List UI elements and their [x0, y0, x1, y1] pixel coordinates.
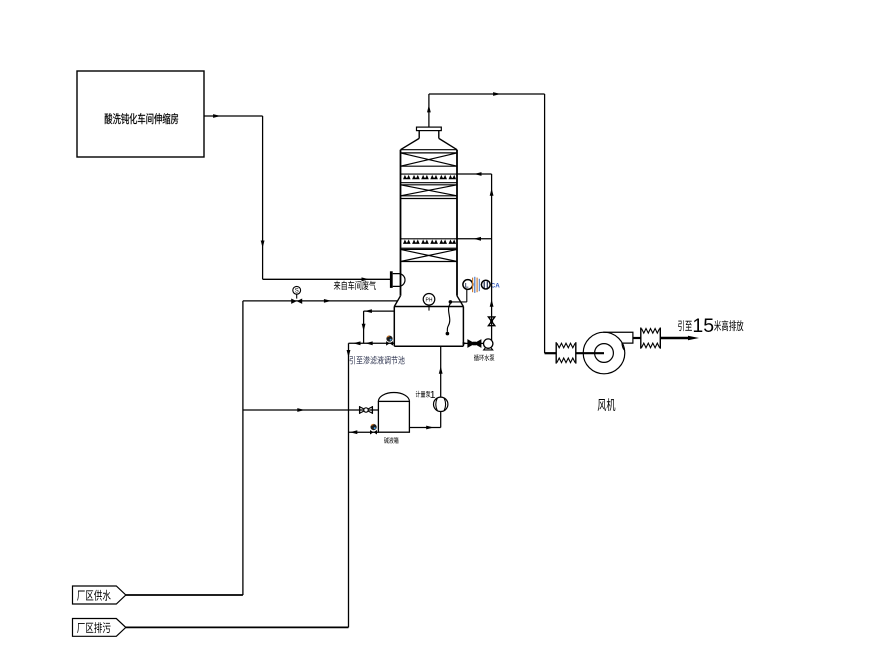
label 计量泵1 — [416, 389, 436, 401]
arrow riser up 2 — [490, 299, 494, 307]
label 来自车间废气 — [334, 281, 376, 290]
wire tower outlet stack — [427, 94, 431, 127]
tower spray header 2 — [401, 239, 458, 244]
svg-text:15: 15 — [692, 315, 714, 337]
label 循环水泵 — [474, 354, 494, 361]
wire spray branch 2 — [457, 237, 492, 241]
flag 厂区供水 — [73, 586, 126, 604]
pump metering 计量泵 — [434, 397, 448, 411]
label 风机 — [598, 398, 616, 411]
wire discharge downcomer — [347, 343, 351, 627]
valve alkali drain handwheel — [370, 424, 377, 435]
valve solenoid S — [291, 286, 302, 304]
tower body walls — [401, 150, 458, 296]
arrow riser up 1 — [490, 188, 494, 196]
flag 厂区排污 — [73, 619, 126, 637]
workshop box 酸洗钝化车间伸缩房 — [77, 71, 204, 157]
tank alkali 碱液箱 — [378, 393, 409, 433]
wire fan outlet thick — [633, 337, 641, 339]
valve ball alkali inlet — [360, 406, 373, 413]
svg-text:PH: PH — [426, 298, 433, 304]
wire top horizontal to fan — [429, 92, 545, 96]
wire gas inlet line — [263, 277, 390, 281]
valve pump suction — [468, 340, 484, 347]
wire overflow downcomer — [362, 311, 366, 343]
tower neck — [419, 131, 439, 139]
wire discharge arrow — [660, 336, 699, 340]
label 引至15米高排放 — [678, 315, 743, 337]
label 引至渗滤液调节池 — [350, 356, 405, 365]
tank sump body — [394, 307, 463, 347]
wire pump suction — [463, 342, 468, 345]
wire alkali dosing line — [439, 346, 443, 397]
tower packing section 3 — [401, 248, 458, 261]
wire fan hub inlet thick — [576, 352, 604, 354]
wire alkali pump suction — [409, 411, 440, 429]
instrument LIA bubbles — [463, 277, 500, 293]
instrument level probe — [446, 289, 467, 335]
label 碱液箱 — [384, 437, 398, 443]
wire supply riser — [242, 301, 244, 595]
svg-text:S: S — [295, 289, 299, 295]
tower top flange cap — [417, 127, 442, 131]
tank sump shoulders — [394, 296, 463, 307]
wire spray branch 1 — [457, 172, 492, 176]
nozzle gas inlet flange — [390, 271, 405, 288]
wire riser recirculation — [491, 174, 493, 340]
wire fan inlet thick — [545, 352, 557, 354]
wire tank overflow upper — [364, 309, 395, 313]
pump circulation 循环水泵 — [484, 339, 493, 350]
tower shoulder — [401, 138, 458, 149]
wire fan downcomer — [544, 94, 546, 353]
wire box outlet vertical — [261, 116, 265, 279]
connector flex outlet — [641, 328, 661, 349]
tower packing section 2 — [401, 183, 458, 199]
wire alkali water branch — [243, 408, 379, 412]
connector flex inlet — [556, 342, 576, 363]
svg-text:L: L — [465, 283, 469, 289]
wire drain bottom line — [126, 626, 349, 628]
wire supply water line — [126, 594, 243, 596]
tower demister section top — [401, 150, 458, 167]
wire box outlet horizontal — [204, 114, 263, 118]
fan centrifugal body — [583, 332, 633, 374]
tower spray header 1 — [401, 174, 458, 179]
wire alkali drain line — [349, 430, 379, 434]
instrument pH meter — [423, 294, 435, 311]
svg-text:1: 1 — [430, 389, 436, 401]
valve riser globe — [488, 317, 494, 326]
valve tank drain handwheel — [386, 336, 393, 346]
wire tank drain line — [349, 341, 395, 345]
wire makeup water line — [243, 299, 398, 303]
